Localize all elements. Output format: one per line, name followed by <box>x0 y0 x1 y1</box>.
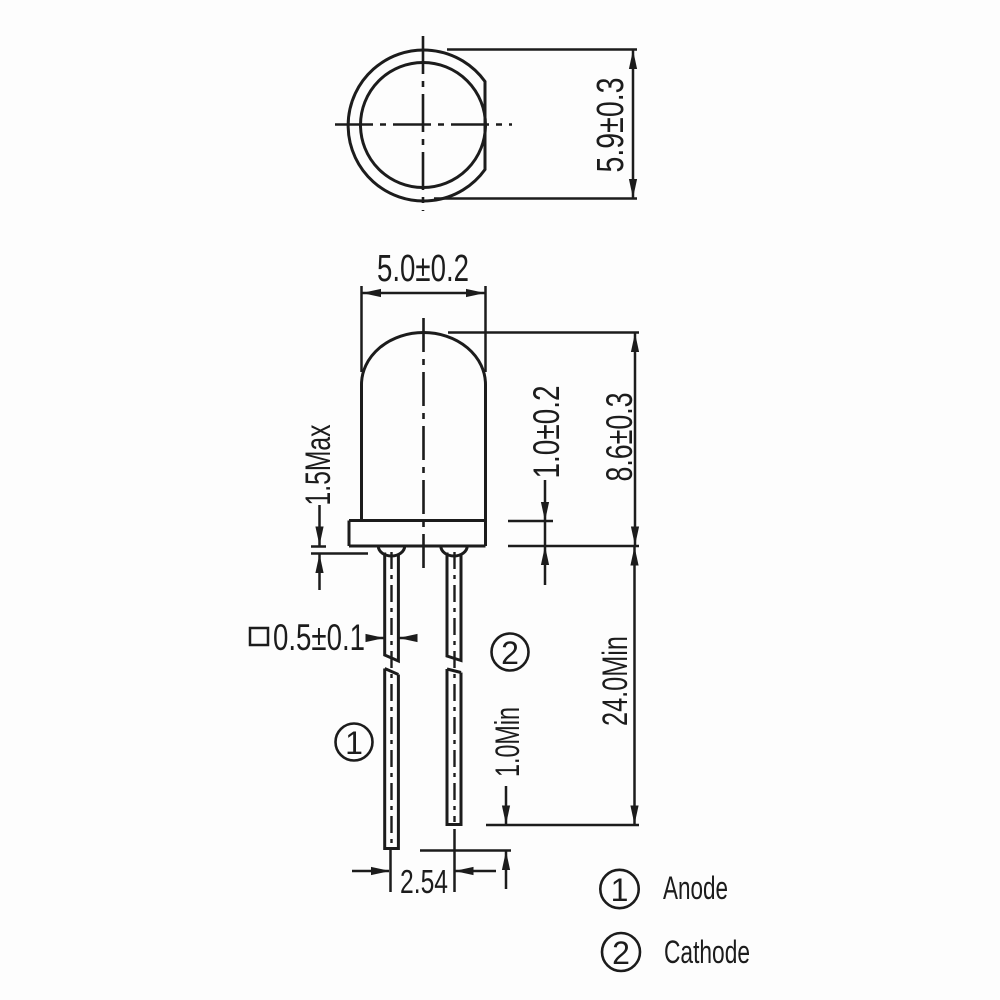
svg-text:1.0±0.2: 1.0±0.2 <box>526 386 567 479</box>
svg-text:1.0Min: 1.0Min <box>489 707 527 777</box>
svg-text:5.0±0.2: 5.0±0.2 <box>377 248 469 290</box>
svg-text:8.6±0.3: 8.6±0.3 <box>599 393 640 482</box>
svg-text:1.5Max: 1.5Max <box>299 424 338 505</box>
svg-text:2: 2 <box>501 635 519 671</box>
svg-text:5.9±0.3: 5.9±0.3 <box>590 78 632 173</box>
svg-text:2.54: 2.54 <box>400 863 448 900</box>
svg-text:Anode: Anode <box>663 870 728 906</box>
svg-text:24.0Min: 24.0Min <box>596 636 635 726</box>
svg-text:Cathode: Cathode <box>664 934 750 970</box>
svg-text:0.5±0.1: 0.5±0.1 <box>273 617 365 658</box>
svg-text:2: 2 <box>612 935 630 971</box>
svg-text:1: 1 <box>611 872 629 908</box>
svg-text:1: 1 <box>345 725 363 761</box>
